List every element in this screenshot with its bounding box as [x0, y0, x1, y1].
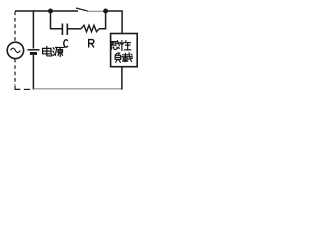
node A junction dot: [48, 9, 53, 14]
wire battery to bottom: [32, 55, 34, 90]
wire dashed AC source to top wire: [14, 12, 16, 42]
label R: [89, 40, 94, 48]
load box rectangle: [111, 34, 138, 67]
label 电源 glyph 源: [53, 48, 64, 57]
label 电源 glyph 电: [43, 47, 52, 56]
wire node B to top-right corner and down to load: [106, 11, 123, 34]
wire load box to bottom wire: [121, 67, 123, 90]
wire dashed AC source to bottom wire: [14, 59, 16, 85]
switch S blade: [76, 8, 88, 11]
wire dashed corner at bottom left: [15, 86, 20, 90]
capacitor C plate 1: [61, 24, 63, 36]
resistor R zigzag: [81, 25, 99, 32]
wire left side top: [32, 10, 34, 48]
wire top left: [15, 10, 78, 12]
wire node A down to RC branch: [51, 11, 63, 29]
battery negative plate: [30, 52, 37, 55]
load label glyph 负: [115, 53, 121, 62]
load label glyph 载: [122, 53, 132, 62]
load label glyph 性: [120, 41, 130, 51]
label C: [64, 40, 68, 47]
wire capacitor to resistor: [67, 28, 81, 30]
AC source circle: [7, 42, 23, 58]
node B junction dot: [103, 9, 108, 14]
wire switch to node B: [88, 10, 106, 12]
wire dash segment to battery branch: [24, 88, 30, 90]
AC source sine wave: [11, 48, 21, 52]
wire bottom: [33, 88, 122, 90]
capacitor C plate 2: [66, 24, 68, 36]
wire resistor to node B: [99, 11, 106, 29]
battery positive plate: [28, 49, 40, 51]
load label glyph 感: [111, 41, 120, 50]
